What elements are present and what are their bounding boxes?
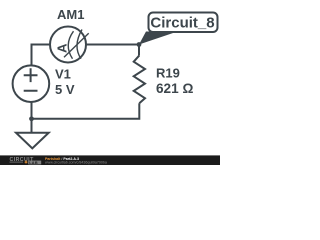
svg-text:A: A — [55, 43, 70, 53]
svg-text:AM1: AM1 — [57, 7, 84, 22]
svg-text:621 Ω: 621 Ω — [156, 81, 193, 96]
svg-text:www.circuitlab.com/c/8436quil9: www.circuitlab.com/c/8436quil9a790ba — [45, 161, 107, 165]
svg-text:Circuit_8: Circuit_8 — [150, 15, 214, 32]
svg-text:V1: V1 — [55, 67, 71, 82]
svg-text:LAB: LAB — [29, 161, 38, 165]
svg-text:R19: R19 — [156, 66, 180, 81]
svg-text:5 V: 5 V — [55, 82, 75, 97]
